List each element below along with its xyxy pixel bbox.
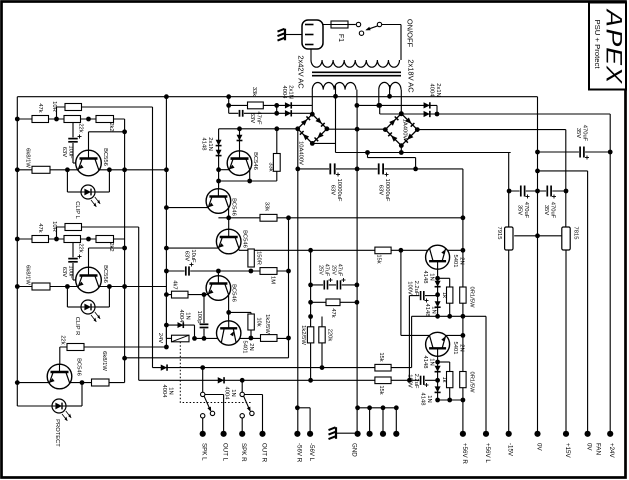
svg-text:24V: 24V — [157, 333, 163, 343]
svg-text:-15V: -15V — [507, 443, 514, 457]
svg-text:47uF: 47uF — [337, 264, 343, 277]
svg-text:1M: 1M — [270, 276, 276, 284]
svg-text:+56V L: +56V L — [484, 443, 491, 463]
svg-text:+56V R: +56V R — [461, 443, 468, 464]
svg-text:47k: 47k — [37, 223, 43, 232]
svg-text:47k: 47k — [37, 103, 43, 112]
svg-text:BC556: BC556 — [102, 148, 108, 166]
svg-text:2x1N: 2x1N — [207, 137, 213, 151]
svg-text:470uF: 470uF — [549, 202, 555, 219]
svg-text:63V: 63V — [249, 113, 255, 123]
svg-text:CLIP R: CLIP R — [74, 317, 80, 336]
svg-text:BC546: BC546 — [252, 152, 258, 170]
svg-text:7915: 7915 — [496, 227, 502, 240]
svg-text:1N: 1N — [167, 387, 173, 394]
svg-text:5401: 5401 — [241, 341, 247, 354]
svg-text:BC546: BC546 — [242, 230, 248, 248]
svg-text:0R1/5W: 0R1/5W — [469, 287, 475, 308]
svg-text:470uF: 470uF — [523, 202, 529, 219]
svg-text:1N: 1N — [426, 395, 432, 402]
svg-text:10k: 10k — [256, 317, 262, 326]
svg-text:ON/OFF: ON/OFF — [406, 19, 415, 48]
svg-text:22k: 22k — [78, 123, 84, 132]
svg-text:22k: 22k — [60, 335, 66, 344]
svg-text:GND: GND — [351, 443, 358, 457]
svg-text:33k: 33k — [268, 162, 274, 171]
svg-text:10R: 10R — [51, 101, 57, 112]
svg-text:+15V: +15V — [564, 443, 571, 458]
svg-text:BC546: BC546 — [231, 198, 237, 216]
svg-text:4148: 4148 — [422, 356, 428, 369]
svg-text:4004: 4004 — [223, 387, 229, 401]
svg-text:1N: 1N — [230, 389, 236, 396]
svg-text:2.2uF: 2.2uF — [413, 374, 419, 389]
svg-text:4004: 4004 — [428, 84, 434, 98]
svg-text:APEX: APEX — [600, 7, 627, 86]
svg-text:15k: 15k — [378, 385, 384, 394]
svg-text:100p: 100p — [196, 311, 202, 324]
svg-text:2x1N: 2x1N — [435, 83, 441, 97]
svg-text:33k: 33k — [264, 202, 270, 211]
svg-text:100V: 100V — [406, 281, 412, 295]
svg-text:2k2: 2k2 — [108, 242, 114, 251]
svg-text:10uF: 10uF — [190, 249, 196, 263]
svg-text:2N: 2N — [458, 257, 464, 264]
svg-text:5401: 5401 — [452, 342, 458, 355]
svg-text:1N: 1N — [428, 273, 434, 280]
svg-text:-56V R: -56V R — [295, 443, 302, 463]
svg-text:PSU + Protect: PSU + Protect — [593, 20, 600, 69]
svg-text:35V: 35V — [575, 128, 581, 138]
svg-text:0R1/5W: 0R1/5W — [469, 372, 475, 393]
svg-text:100V: 100V — [406, 374, 412, 388]
svg-text:F1: F1 — [337, 34, 344, 42]
svg-text:CLIP L: CLIP L — [74, 201, 80, 219]
svg-text:4004: 4004 — [178, 310, 184, 324]
svg-text:15k: 15k — [376, 254, 382, 263]
svg-text:470uF: 470uF — [581, 125, 587, 142]
svg-text:1k: 1k — [441, 376, 447, 382]
svg-text:47uF: 47uF — [324, 264, 330, 277]
svg-text:63V: 63V — [377, 185, 383, 195]
svg-text:SPK L: SPK L — [201, 443, 208, 461]
svg-text:63V: 63V — [183, 251, 189, 261]
svg-text:1N: 1N — [428, 358, 434, 365]
svg-text:47nF: 47nF — [255, 111, 261, 125]
svg-text:4148: 4148 — [419, 393, 425, 406]
svg-text:35V: 35V — [543, 205, 549, 215]
svg-text:10R: 10R — [51, 221, 57, 232]
svg-text:1N: 1N — [184, 312, 190, 319]
svg-text:BC546: BC546 — [76, 358, 82, 376]
svg-text:15k: 15k — [378, 352, 384, 361]
svg-text:BC556: BC556 — [102, 265, 108, 283]
svg-text:10uF: 10uF — [67, 145, 73, 159]
svg-text:0V: 0V — [586, 443, 593, 451]
svg-text:6k8/1W: 6k8/1W — [25, 148, 31, 168]
svg-text:1N: 1N — [430, 306, 436, 313]
svg-text:35V: 35V — [516, 205, 522, 215]
svg-text:SPK R: SPK R — [240, 443, 247, 462]
svg-text:10000uF: 10000uF — [384, 179, 390, 202]
svg-text:0V: 0V — [536, 443, 543, 451]
svg-text:25V: 25V — [330, 265, 336, 275]
svg-text:4148: 4148 — [422, 271, 428, 284]
svg-text:63V: 63V — [61, 267, 67, 277]
svg-text:4004: 4004 — [281, 86, 287, 100]
svg-text:150R: 150R — [256, 251, 262, 265]
svg-text:63V: 63V — [61, 147, 67, 157]
svg-text:4k7: 4k7 — [172, 280, 178, 289]
svg-text:6k8/1W: 6k8/1W — [101, 351, 107, 371]
svg-text:1k2/5W: 1k2/5W — [264, 314, 270, 334]
svg-text:2x1N: 2x1N — [287, 85, 293, 99]
svg-text:220k: 220k — [327, 329, 333, 342]
svg-text:10A400V: 10A400V — [298, 141, 304, 165]
svg-text:63V: 63V — [329, 185, 335, 195]
svg-text:5401: 5401 — [452, 255, 458, 268]
svg-text:25V: 25V — [317, 265, 323, 275]
svg-text:2k2: 2k2 — [108, 122, 114, 131]
svg-text:PROTECT: PROTECT — [54, 419, 60, 447]
svg-text:2N: 2N — [248, 343, 254, 350]
svg-text:-56V L: -56V L — [308, 443, 315, 462]
svg-text:10000uF: 10000uF — [336, 179, 342, 202]
svg-text:1A400V: 1A400V — [402, 119, 408, 140]
svg-text:2x42V AC: 2x42V AC — [297, 55, 306, 89]
svg-text:2.2uF: 2.2uF — [413, 281, 419, 296]
svg-text:10uF: 10uF — [67, 265, 73, 279]
svg-text:4148: 4148 — [424, 304, 430, 317]
svg-text:FAN: FAN — [595, 443, 602, 455]
svg-text:4148: 4148 — [200, 138, 206, 151]
svg-text:BC546: BC546 — [231, 284, 237, 302]
svg-text:33k: 33k — [251, 87, 257, 96]
svg-text:2N: 2N — [458, 344, 464, 351]
svg-text:2x18V AC: 2x18V AC — [407, 59, 416, 93]
svg-text:1k2/5W: 1k2/5W — [300, 325, 306, 345]
svg-text:1k: 1k — [441, 292, 447, 298]
svg-text:47k: 47k — [330, 308, 336, 317]
svg-text:22k: 22k — [78, 243, 84, 252]
svg-text:4004: 4004 — [161, 385, 167, 399]
svg-text:OUT L: OUT L — [222, 443, 229, 462]
svg-text:6k8/1W: 6k8/1W — [25, 265, 31, 285]
svg-text:OUT R: OUT R — [261, 443, 268, 463]
svg-text:+24V: +24V — [608, 443, 615, 458]
svg-text:7815: 7815 — [573, 227, 579, 240]
